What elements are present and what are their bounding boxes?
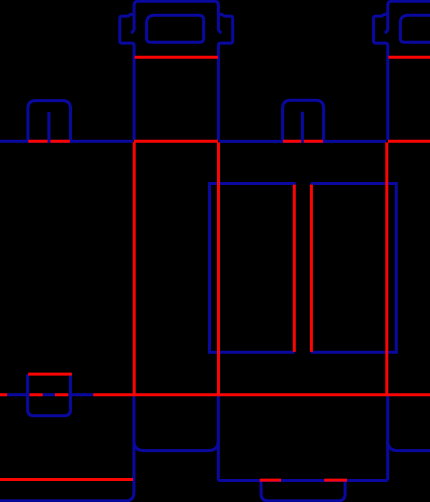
flap 2 window cutout (clipped) xyxy=(400,15,430,42)
zipper cut dashes on tear line xyxy=(7,393,93,396)
lock tab 2 on main fold (cut) xyxy=(283,100,324,141)
top tuck flap 2 outline (cut, right edge) xyxy=(385,1,430,33)
main fold crease centre-left xyxy=(134,140,218,143)
long vertical crease x134 xyxy=(133,142,136,394)
main fold crease right xyxy=(388,140,430,143)
main horizontal fold line, left cut segment xyxy=(0,140,133,143)
inner panel rectangle B (cut) xyxy=(311,184,397,353)
rectangle A right crease xyxy=(293,185,296,352)
crease at lock tab 2 base xyxy=(283,140,323,143)
centre panel bottom flap edge (cut) xyxy=(218,396,388,481)
rectangle B left crease xyxy=(310,185,313,352)
right panel edge below tear line (cut) xyxy=(386,396,389,481)
inner panel rectangle A (cut) xyxy=(210,184,296,353)
main horizontal fold line, centre cut segment xyxy=(219,140,386,143)
tear line crease segments xyxy=(0,393,430,396)
left bottom flap crease xyxy=(0,478,133,481)
bottom lock slot top crease xyxy=(28,373,72,376)
flap 1 window cutout xyxy=(147,15,204,42)
flap 1 right ear + right neck edge (cut) xyxy=(218,14,232,140)
lock tab 1 on main fold (cut) xyxy=(28,101,71,141)
crease under flap 1 xyxy=(135,56,218,59)
glue-flap U between panels (cut) xyxy=(134,441,218,451)
crease under flap 2 xyxy=(388,56,430,59)
lock tab 2 centre slit (cut) xyxy=(301,112,304,141)
flap 2 left ear + left neck edge (cut) xyxy=(374,14,388,140)
top tuck flap 1 outline (cut) xyxy=(131,1,222,33)
left panel bottom edge with corner (cut) xyxy=(0,396,134,501)
long vertical crease x218 xyxy=(217,142,220,394)
lock tab 1 centre slit (cut) xyxy=(47,112,50,141)
right glue-flap corner to edge (cut) xyxy=(388,441,430,451)
crease at lock tab 1 base xyxy=(28,140,70,143)
bottom thumb slot (cut) xyxy=(261,481,345,501)
thumb slot crease right xyxy=(324,479,347,482)
flap 1 left ear + left neck edge (cut) xyxy=(120,14,134,140)
thumb slot crease left xyxy=(260,479,281,482)
long vertical crease x388 xyxy=(385,142,388,394)
bottom lock slot left (cut) xyxy=(28,374,71,416)
